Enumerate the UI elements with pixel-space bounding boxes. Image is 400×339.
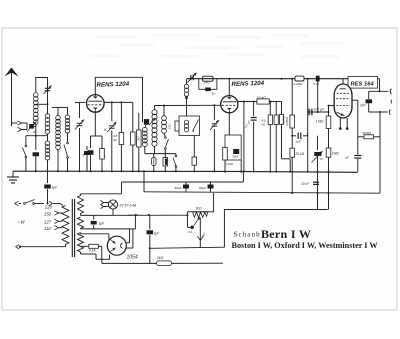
tube U3 RES 164	[334, 84, 352, 118]
capacitor C25 2uF	[147, 215, 161, 263]
wire anode1	[125, 229, 129, 243]
resistor R3 240	[203, 76, 214, 84]
svg-text:0,1MΩ: 0,1MΩ	[282, 116, 286, 124]
capacitor C6	[131, 102, 136, 171]
coil L4	[65, 115, 70, 142]
svg-text:150: 150	[44, 211, 52, 216]
capacitor C12	[244, 102, 257, 173]
trimmer capacitor C10	[188, 73, 197, 83]
resistor R12 20k	[290, 136, 305, 193]
antenna	[5, 68, 19, 127]
brand Bern I W	[261, 227, 311, 241]
svg-text:10 nF: 10 nF	[301, 182, 310, 186]
wire sec1 bottom rail	[81, 214, 189, 217]
svg-text:50µF: 50µF	[233, 155, 239, 159]
wire trimmer to coil L1	[33, 126, 36, 128]
resistor R2 48k	[113, 102, 124, 171]
bar over L3 L4	[52, 107, 68, 116]
svg-text:0,1MΩ: 0,1MΩ	[294, 82, 304, 86]
capacitor C2 fixed	[33, 152, 40, 171]
svg-text:RES 164: RES 164	[351, 81, 375, 87]
wire bottom long	[102, 262, 157, 264]
wire avc return	[243, 102, 245, 172]
capacitor C8 fixed	[144, 119, 149, 128]
switch S5	[173, 154, 177, 173]
svg-text:1 MΩ: 1 MΩ	[316, 120, 324, 124]
capacitor C5 cathode	[88, 150, 94, 171]
wire pot right corner	[208, 193, 214, 212]
bus dots	[35, 170, 330, 172]
svg-text:1MΩ: 1MΩ	[332, 152, 340, 156]
resistor R17	[279, 115, 285, 125]
tube U1 RENS 1204	[87, 95, 105, 113]
svg-text:20 kΩ: 20 kΩ	[294, 152, 304, 156]
capacitor C9 in filter	[175, 121, 179, 131]
svg-text:220: 220	[44, 204, 53, 209]
svg-text:RENS 1204: RENS 1204	[231, 80, 264, 88]
pot zigzag	[193, 212, 208, 217]
wire top bus	[187, 78, 348, 80]
pilot lamp	[108, 200, 117, 209]
svg-text:1,5kΩ: 1,5kΩ	[226, 162, 233, 166]
resistor R1 cathode	[100, 149, 107, 172]
ground bus	[13, 171, 358, 172]
capacitor C23 50uF	[175, 182, 190, 192]
resistor R16 under box	[192, 136, 197, 173]
svg-text:0,1A: 0,1A	[89, 248, 96, 252]
wire primary bottom	[16, 245, 66, 249]
transformer T1 sec1	[78, 196, 84, 214]
resistor R8 in box	[223, 148, 233, 167]
switch S2	[64, 142, 68, 171]
tube label RENS 1204 second	[231, 80, 264, 88]
coil L3	[56, 116, 61, 172]
brand Schaub	[234, 231, 261, 239]
capacitor C15 5nF	[313, 76, 319, 112]
label 150	[168, 124, 172, 129]
tube label RES 164	[351, 81, 375, 87]
speaker terminal C2	[389, 110, 390, 115]
tube label RENS 1204	[96, 81, 129, 89]
tap 150	[44, 211, 62, 217]
ground symbol	[7, 171, 19, 183]
wire y112	[308, 79, 330, 113]
wire anode2	[126, 229, 133, 248]
coil L1 tap	[36, 103, 49, 105]
wire b+ out	[150, 247, 225, 248]
mains switch	[24, 200, 35, 205]
switch S4 in filter	[192, 120, 198, 132]
capacitor C19 10nF	[301, 182, 319, 210]
svg-text:5 nF: 5 nF	[313, 82, 319, 86]
wire y182 rail	[122, 172, 244, 183]
tap 127	[44, 219, 62, 224]
tube3 pins	[339, 118, 349, 130]
pot wiper	[187, 212, 206, 238]
capacitor C4 5nF	[83, 146, 91, 171]
filter box	[179, 116, 200, 136]
wire switch to tap220	[35, 204, 64, 206]
pot fork down	[197, 218, 203, 248]
wire anode tube3	[352, 100, 358, 137]
trimmer capacitor C1	[44, 86, 52, 95]
fuse 01A	[81, 244, 102, 263]
svg-text:~ W: ~ W	[17, 220, 26, 225]
wire y209 drops	[318, 193, 329, 209]
svg-text:300: 300	[137, 136, 141, 141]
resistor R14 1k pot	[193, 206, 208, 212]
trimmer capacitor antenna	[27, 122, 37, 135]
capacitor C17 1uF	[291, 133, 307, 144]
transformer T1 sec3	[78, 233, 84, 253]
svg-text:µF: µF	[345, 156, 349, 160]
wire x380 down	[379, 112, 381, 137]
wire sec3 top	[81, 233, 109, 240]
transformer T1 sec2	[78, 217, 84, 228]
speaker terminal C1	[390, 89, 391, 94]
wire bus corner right	[379, 79, 381, 93]
wire grid tube1 left	[75, 102, 85, 118]
brand line2	[232, 241, 379, 250]
svg-text:Schaub: Schaub	[234, 231, 261, 239]
capacitor C26	[163, 154, 168, 173]
svg-text:1kΩ: 1kΩ	[195, 206, 202, 210]
switch S3	[164, 133, 169, 154]
resistor R10 1M	[316, 112, 331, 148]
svg-text:240: 240	[203, 81, 210, 85]
wire speaker bottom	[369, 111, 388, 113]
capacitor C20 3nF	[360, 91, 372, 112]
svg-text:1054: 1054	[127, 254, 138, 260]
capacitor C18 tone	[312, 136, 323, 193]
wire sec1 top	[81, 194, 122, 196]
svg-text:0,1: 0,1	[188, 230, 193, 234]
svg-text:50µF: 50µF	[175, 186, 182, 190]
svg-text:RENS 1204: RENS 1204	[96, 81, 129, 89]
wire hv right rail	[130, 215, 136, 229]
wire grid tube3	[328, 105, 335, 112]
coil L2b	[45, 134, 50, 172]
wire box legs	[224, 160, 242, 173]
svg-text:0,25MΩ: 0,25MΩ	[285, 117, 289, 126]
trimmer capacitor C13	[210, 105, 219, 171]
tube label 1054	[127, 254, 138, 260]
coil L1	[34, 93, 39, 150]
coil L6	[142, 127, 147, 153]
svg-text:Kl: Kl	[320, 157, 323, 161]
coil L5 IF primary	[152, 106, 157, 154]
wire box1 to cap	[142, 112, 144, 122]
lamp plug arrows	[101, 200, 109, 208]
capacitor C14 in box	[233, 149, 240, 159]
label box RES 164	[348, 77, 378, 89]
wire grid line tube2	[155, 104, 221, 106]
wire x328 down	[328, 172, 330, 210]
svg-text:127: 127	[44, 220, 52, 225]
svg-text:110: 110	[44, 226, 51, 231]
wire label box frame	[224, 210, 327, 248]
capacitor C16 100uF	[308, 107, 325, 171]
svg-text:10 kΩ: 10 kΩ	[257, 96, 267, 100]
resistor R13 01M	[358, 131, 380, 139]
resistor R4 on bus	[291, 76, 309, 86]
svg-text:50µF: 50µF	[199, 186, 206, 190]
wire tube3 top cap	[342, 79, 344, 85]
wire sec3 bottom	[81, 252, 110, 259]
svg-text:1kΩ: 1kΩ	[157, 256, 164, 260]
svg-text:5µ: 5µ	[212, 92, 216, 96]
resistor R7 01M	[274, 102, 278, 172]
wire R5 to node	[269, 101, 281, 103]
coil L2a	[45, 114, 50, 134]
tap 110	[44, 226, 62, 232]
capacitor C11 5uF loop	[199, 79, 217, 96]
wire y192 rail	[144, 192, 380, 194]
capacitor C22 1uF bus	[44, 171, 58, 204]
svg-text:100 µF: 100 µF	[314, 107, 326, 111]
wire node down	[282, 102, 292, 173]
coupling arrow	[149, 118, 156, 125]
wire cathode split	[91, 113, 103, 148]
switch S1	[22, 136, 26, 172]
node hline y135.7	[26, 135, 48, 137]
svg-text:0(MΩ): 0(MΩ)	[363, 131, 371, 135]
coil L8 in filter	[184, 120, 188, 132]
tube U4 1054	[107, 236, 126, 255]
grid cap pin	[185, 96, 188, 99]
transformer T1 primary	[62, 206, 69, 245]
wire x144 vert	[143, 170, 145, 192]
wire tube1 anode right	[104, 101, 133, 103]
wire x380 up	[379, 137, 381, 193]
coil L7	[162, 105, 167, 134]
wire antenna to jacks	[12, 123, 18, 126]
svg-text:5: 5	[83, 154, 85, 158]
wire x1215 vert	[121, 182, 123, 194]
wire lamp down	[112, 209, 114, 215]
antenna jack A2	[18, 127, 22, 131]
transformer core	[72, 199, 74, 257]
capacitor C21 05uF	[345, 137, 361, 172]
wire IF bottom	[145, 153, 176, 155]
svg-text:Boston I W, Oxford I W, West: Boston I W, Oxford I W, Westminster I W	[232, 241, 379, 250]
svg-text:1µF: 1µF	[296, 140, 301, 144]
trimmer capacitor C3	[75, 120, 84, 172]
svg-text:Bern I W: Bern I W	[261, 227, 311, 241]
resistor R5 10k	[257, 96, 270, 104]
wire jacks to trimmer	[22, 123, 28, 130]
label 300	[137, 136, 141, 141]
svg-text:150: 150	[168, 124, 172, 129]
wire L1 top loop	[36, 78, 48, 115]
tube U2 RENS 1204	[221, 96, 238, 113]
wire tube2 grid cap	[228, 79, 230, 96]
tube2 cathode box	[225, 113, 241, 160]
mains plug	[15, 201, 22, 205]
tube U1 cathode lead	[94, 112, 96, 113]
wire osc coil	[186, 96, 188, 116]
resistor R15 1k	[157, 256, 224, 266]
svg-text:2: 2	[103, 154, 107, 157]
wire bus to RES box	[378, 78, 380, 80]
antenna jack A1	[18, 121, 22, 125]
wire sec2 top cap 1uF	[91, 215, 105, 229]
wire speaker top	[369, 90, 389, 92]
label box RENS 1204	[95, 77, 142, 112]
capacitor C7	[137, 113, 142, 171]
trimmer capacitor K	[104, 102, 116, 171]
lamp label	[120, 203, 138, 207]
resistor R6 4k	[262, 102, 273, 172]
fuse F2	[152, 154, 156, 173]
tap 220	[44, 201, 53, 209]
resistor R11 1M lower	[326, 148, 339, 172]
label mains	[17, 220, 26, 225]
wire sec2 bottom rail	[81, 227, 130, 230]
capacitor C24 50uF	[199, 182, 214, 192]
coil L9 osc	[184, 79, 188, 97]
svg-text:6V S7-0,4A: 6V S7-0,4A	[120, 203, 138, 207]
resistor R9 025M	[285, 79, 295, 136]
wire tube2 anode	[238, 101, 257, 103]
speaker terminal mid	[390, 100, 393, 104]
svg-text:2µF: 2µF	[153, 231, 161, 235]
